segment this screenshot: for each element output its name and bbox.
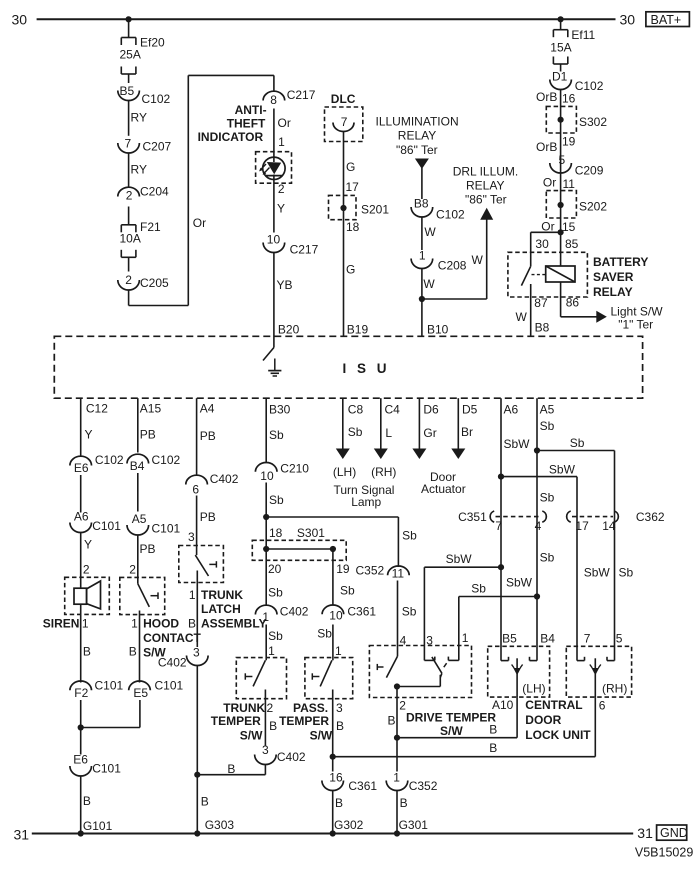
svg-text:11: 11 xyxy=(563,177,576,191)
svg-text:Sb: Sb xyxy=(268,586,283,600)
svg-text:20: 20 xyxy=(268,562,282,576)
svg-text:PB: PB xyxy=(140,542,156,556)
svg-text:C217: C217 xyxy=(290,243,319,257)
svg-text:Sb: Sb xyxy=(317,627,332,641)
svg-text:30: 30 xyxy=(12,12,28,28)
svg-text:I S U: I S U xyxy=(343,361,391,376)
svg-text:B: B xyxy=(335,796,343,810)
svg-text:Sb: Sb xyxy=(619,566,634,580)
svg-text:C101: C101 xyxy=(95,679,124,693)
svg-text:C101: C101 xyxy=(92,762,121,776)
svg-text:6: 6 xyxy=(192,483,199,497)
svg-text:D1: D1 xyxy=(552,70,568,84)
svg-text:S/W: S/W xyxy=(440,724,463,738)
svg-text:Y: Y xyxy=(277,202,285,216)
svg-text:(LH): (LH) xyxy=(333,465,356,479)
svg-text:ANTI-: ANTI- xyxy=(235,103,267,117)
svg-text:7: 7 xyxy=(584,631,591,645)
svg-text:31: 31 xyxy=(14,827,30,843)
svg-text:Y: Y xyxy=(84,538,92,552)
svg-text:S201: S201 xyxy=(361,203,389,217)
svg-text:C402: C402 xyxy=(280,605,309,619)
svg-text:BAT+: BAT+ xyxy=(651,13,682,27)
svg-text:RELAY: RELAY xyxy=(593,285,633,299)
svg-text:C101: C101 xyxy=(92,519,121,533)
svg-text:B: B xyxy=(400,796,408,810)
svg-text:Br: Br xyxy=(461,425,473,439)
svg-text:CENTRAL: CENTRAL xyxy=(525,698,582,712)
svg-text:C102: C102 xyxy=(95,453,124,467)
svg-text:RELAY: RELAY xyxy=(398,129,436,143)
svg-text:CONTACT: CONTACT xyxy=(143,631,201,645)
svg-text:OrB: OrB xyxy=(536,90,557,104)
svg-text:Or: Or xyxy=(541,220,554,234)
svg-text:S302: S302 xyxy=(579,115,607,129)
svg-text:B: B xyxy=(129,645,137,659)
svg-text:YB: YB xyxy=(277,278,293,292)
svg-text:B: B xyxy=(269,719,277,733)
svg-text:W: W xyxy=(424,225,436,239)
svg-text:B5: B5 xyxy=(502,631,517,645)
svg-text:G303: G303 xyxy=(205,818,235,832)
svg-text:C352: C352 xyxy=(356,563,385,577)
svg-text:C101: C101 xyxy=(155,679,184,693)
svg-text:Or: Or xyxy=(278,116,291,130)
svg-text:G: G xyxy=(346,160,355,174)
svg-text:B8: B8 xyxy=(535,320,550,334)
svg-text:2: 2 xyxy=(125,273,132,287)
svg-text:B8: B8 xyxy=(414,197,429,211)
svg-text:SbW: SbW xyxy=(506,576,533,590)
svg-text:C102: C102 xyxy=(436,208,465,222)
svg-text:C351: C351 xyxy=(458,510,487,524)
svg-text:A4: A4 xyxy=(200,401,215,415)
svg-text:C402: C402 xyxy=(158,656,187,670)
svg-text:"86" Ter: "86" Ter xyxy=(396,143,438,157)
svg-text:30: 30 xyxy=(535,237,549,251)
svg-text:Sb: Sb xyxy=(269,493,284,507)
svg-text:PB: PB xyxy=(200,510,216,524)
svg-text:Sb: Sb xyxy=(402,529,417,543)
svg-text:B19: B19 xyxy=(347,323,369,337)
svg-text:A15: A15 xyxy=(140,401,162,415)
svg-text:1: 1 xyxy=(393,771,400,785)
svg-text:B5: B5 xyxy=(120,84,135,98)
svg-text:C204: C204 xyxy=(140,185,169,199)
svg-text:5: 5 xyxy=(559,153,566,167)
svg-text:(LH): (LH) xyxy=(522,681,545,695)
svg-text:ASSEMBLY: ASSEMBLY xyxy=(201,617,267,631)
svg-text:C210: C210 xyxy=(280,462,309,476)
svg-text:Sb: Sb xyxy=(540,551,555,565)
svg-text:3: 3 xyxy=(193,646,200,660)
svg-text:C209: C209 xyxy=(575,164,604,178)
svg-text:Lamp: Lamp xyxy=(351,495,381,509)
svg-text:B4: B4 xyxy=(540,631,555,645)
svg-text:Or: Or xyxy=(193,216,206,230)
svg-text:3: 3 xyxy=(336,701,343,715)
svg-text:F21: F21 xyxy=(140,220,161,234)
svg-text:RY: RY xyxy=(131,111,147,125)
svg-text:4: 4 xyxy=(535,519,542,533)
svg-text:3: 3 xyxy=(426,634,433,648)
svg-text:C207: C207 xyxy=(143,140,172,154)
svg-text:Sb: Sb xyxy=(471,582,486,596)
svg-text:D6: D6 xyxy=(423,402,439,416)
svg-text:C102: C102 xyxy=(142,92,171,106)
svg-text:B: B xyxy=(489,723,497,737)
svg-text:INDICATOR: INDICATOR xyxy=(198,130,264,144)
svg-text:TRUNK: TRUNK xyxy=(223,701,265,715)
svg-text:2: 2 xyxy=(267,701,274,715)
svg-text:16: 16 xyxy=(329,771,343,785)
svg-text:C12: C12 xyxy=(86,401,108,415)
svg-text:10: 10 xyxy=(260,469,274,483)
svg-text:Sb: Sb xyxy=(268,629,283,643)
svg-text:6: 6 xyxy=(599,699,606,713)
svg-text:Or: Or xyxy=(543,176,556,190)
svg-text:S/W: S/W xyxy=(310,729,333,743)
svg-text:C8: C8 xyxy=(348,402,364,416)
svg-text:2: 2 xyxy=(129,563,136,577)
svg-text:(RH): (RH) xyxy=(371,465,396,479)
svg-text:PB: PB xyxy=(200,429,216,443)
svg-text:C361: C361 xyxy=(348,779,377,793)
svg-text:86: 86 xyxy=(566,296,580,310)
svg-text:B10: B10 xyxy=(427,323,449,337)
svg-text:SbW: SbW xyxy=(504,437,531,451)
svg-text:DOOR: DOOR xyxy=(525,713,561,727)
svg-text:F2: F2 xyxy=(74,686,88,700)
svg-text:"1" Ter: "1" Ter xyxy=(618,318,653,332)
svg-text:L: L xyxy=(385,426,392,440)
svg-text:B: B xyxy=(227,762,235,776)
svg-text:"86" Ter: "86" Ter xyxy=(465,193,507,207)
svg-text:BATTERY: BATTERY xyxy=(593,255,648,269)
svg-text:Sb: Sb xyxy=(402,605,417,619)
svg-text:TEMPER: TEMPER xyxy=(279,714,329,728)
svg-text:Sb: Sb xyxy=(340,584,355,598)
svg-text:B: B xyxy=(336,719,344,733)
svg-text:7: 7 xyxy=(341,115,348,129)
svg-text:C217: C217 xyxy=(287,88,316,102)
svg-text:C102: C102 xyxy=(575,79,604,93)
svg-text:SbW: SbW xyxy=(584,566,611,580)
svg-text:C402: C402 xyxy=(210,472,239,486)
svg-text:Sb: Sb xyxy=(540,491,555,505)
svg-text:C101: C101 xyxy=(152,522,181,536)
svg-text:PASS.: PASS. xyxy=(293,701,328,715)
svg-text:1: 1 xyxy=(189,588,196,602)
svg-text:18: 18 xyxy=(346,220,360,234)
svg-text:C205: C205 xyxy=(140,276,169,290)
svg-text:SIREN: SIREN xyxy=(43,617,80,631)
svg-text:G101: G101 xyxy=(83,819,113,833)
svg-text:Gr: Gr xyxy=(423,426,436,440)
svg-text:LOCK UNIT: LOCK UNIT xyxy=(525,728,591,742)
svg-text:TEMPER: TEMPER xyxy=(211,714,261,728)
svg-text:SAVER: SAVER xyxy=(593,270,634,284)
svg-text:2: 2 xyxy=(83,563,90,577)
svg-text:B20: B20 xyxy=(278,323,300,337)
svg-text:A6: A6 xyxy=(504,402,519,416)
svg-text:19: 19 xyxy=(562,134,576,148)
svg-text:A5: A5 xyxy=(132,512,147,526)
svg-text:1: 1 xyxy=(131,617,138,631)
svg-text:Sb: Sb xyxy=(348,425,363,439)
svg-text:16: 16 xyxy=(562,92,576,106)
svg-text:D5: D5 xyxy=(462,402,478,416)
svg-text:7: 7 xyxy=(495,519,502,533)
svg-text:17: 17 xyxy=(575,519,589,533)
svg-text:SbW: SbW xyxy=(549,462,576,476)
svg-text:TRUNK: TRUNK xyxy=(201,588,243,602)
svg-text:S301: S301 xyxy=(297,526,325,540)
svg-text:E6: E6 xyxy=(73,753,88,767)
svg-text:B: B xyxy=(489,741,497,755)
svg-text:S/W: S/W xyxy=(240,729,263,743)
svg-text:ILLUMINATION: ILLUMINATION xyxy=(376,115,459,129)
svg-text:HOOD: HOOD xyxy=(143,617,179,631)
svg-text:19: 19 xyxy=(336,562,350,576)
svg-text:Sb: Sb xyxy=(570,436,585,450)
svg-text:B: B xyxy=(188,617,196,631)
svg-text:85: 85 xyxy=(565,237,579,251)
svg-text:RY: RY xyxy=(131,163,147,177)
svg-text:C402: C402 xyxy=(277,750,306,764)
svg-text:Light S/W: Light S/W xyxy=(611,305,664,319)
svg-text:W: W xyxy=(516,310,528,324)
svg-text:B: B xyxy=(201,795,209,809)
svg-text:18: 18 xyxy=(269,526,283,540)
svg-text:87: 87 xyxy=(534,296,548,310)
svg-text:15A: 15A xyxy=(550,41,571,55)
svg-text:1: 1 xyxy=(262,610,269,624)
svg-text:V5B15029: V5B15029 xyxy=(635,845,693,859)
svg-text:(RH): (RH) xyxy=(602,681,627,695)
svg-text:1: 1 xyxy=(419,249,426,263)
svg-text:E5: E5 xyxy=(133,686,148,700)
svg-text:B4: B4 xyxy=(130,459,145,473)
svg-text:10: 10 xyxy=(267,233,281,247)
svg-text:RELAY: RELAY xyxy=(466,178,504,192)
svg-text:PB: PB xyxy=(140,428,156,442)
svg-text:SbW: SbW xyxy=(446,552,473,566)
svg-text:Ef11: Ef11 xyxy=(571,28,595,42)
svg-text:G302: G302 xyxy=(334,818,364,832)
svg-text:A5: A5 xyxy=(540,402,555,416)
svg-text:W: W xyxy=(423,277,435,291)
svg-text:E6: E6 xyxy=(74,461,89,475)
svg-text:C362: C362 xyxy=(636,510,665,524)
svg-text:G301: G301 xyxy=(399,818,429,832)
svg-text:C102: C102 xyxy=(152,453,181,467)
svg-text:30: 30 xyxy=(620,12,636,28)
svg-text:3: 3 xyxy=(188,530,195,544)
svg-text:2: 2 xyxy=(126,189,133,203)
svg-text:Actuator: Actuator xyxy=(421,482,466,496)
svg-text:C352: C352 xyxy=(409,779,438,793)
svg-text:31: 31 xyxy=(637,825,653,841)
svg-text:10: 10 xyxy=(329,609,343,623)
svg-text:DRL ILLUM.: DRL ILLUM. xyxy=(453,165,519,179)
svg-text:G: G xyxy=(346,263,355,277)
svg-text:S202: S202 xyxy=(579,200,607,214)
svg-text:17: 17 xyxy=(346,180,360,194)
svg-text:W: W xyxy=(472,253,484,267)
svg-text:C4: C4 xyxy=(385,402,401,416)
svg-text:Sb: Sb xyxy=(540,419,555,433)
svg-text:14: 14 xyxy=(602,519,616,533)
svg-text:Y: Y xyxy=(85,428,93,442)
svg-text:7: 7 xyxy=(125,137,132,151)
svg-text:THEFT: THEFT xyxy=(227,117,266,131)
svg-text:B30: B30 xyxy=(269,402,291,416)
svg-text:B: B xyxy=(83,794,91,808)
svg-text:Ef20: Ef20 xyxy=(140,36,165,50)
svg-text:LATCH: LATCH xyxy=(201,602,241,616)
svg-text:1: 1 xyxy=(462,631,469,645)
svg-text:Sb: Sb xyxy=(269,428,284,442)
svg-text:B: B xyxy=(388,714,396,728)
svg-text:A10: A10 xyxy=(492,698,514,712)
svg-text:2: 2 xyxy=(278,182,285,196)
svg-text:1: 1 xyxy=(82,617,89,631)
svg-text:B: B xyxy=(83,645,91,659)
svg-text:8: 8 xyxy=(270,93,277,107)
svg-text:C361: C361 xyxy=(347,605,376,619)
svg-text:1: 1 xyxy=(278,135,285,149)
svg-text:1: 1 xyxy=(335,644,342,658)
svg-text:25A: 25A xyxy=(120,48,141,62)
svg-text:A6: A6 xyxy=(74,509,89,523)
svg-text:DRIVE TEMPER: DRIVE TEMPER xyxy=(406,711,496,725)
svg-text:DLC: DLC xyxy=(331,92,356,106)
svg-text:GND: GND xyxy=(660,826,688,840)
svg-text:1: 1 xyxy=(268,644,275,658)
svg-text:OrB: OrB xyxy=(536,140,557,154)
svg-text:11: 11 xyxy=(392,566,405,580)
svg-text:15: 15 xyxy=(562,220,576,234)
svg-text:C208: C208 xyxy=(438,258,467,272)
svg-text:3: 3 xyxy=(262,743,269,757)
svg-text:10A: 10A xyxy=(120,232,141,246)
svg-text:5: 5 xyxy=(616,631,623,645)
